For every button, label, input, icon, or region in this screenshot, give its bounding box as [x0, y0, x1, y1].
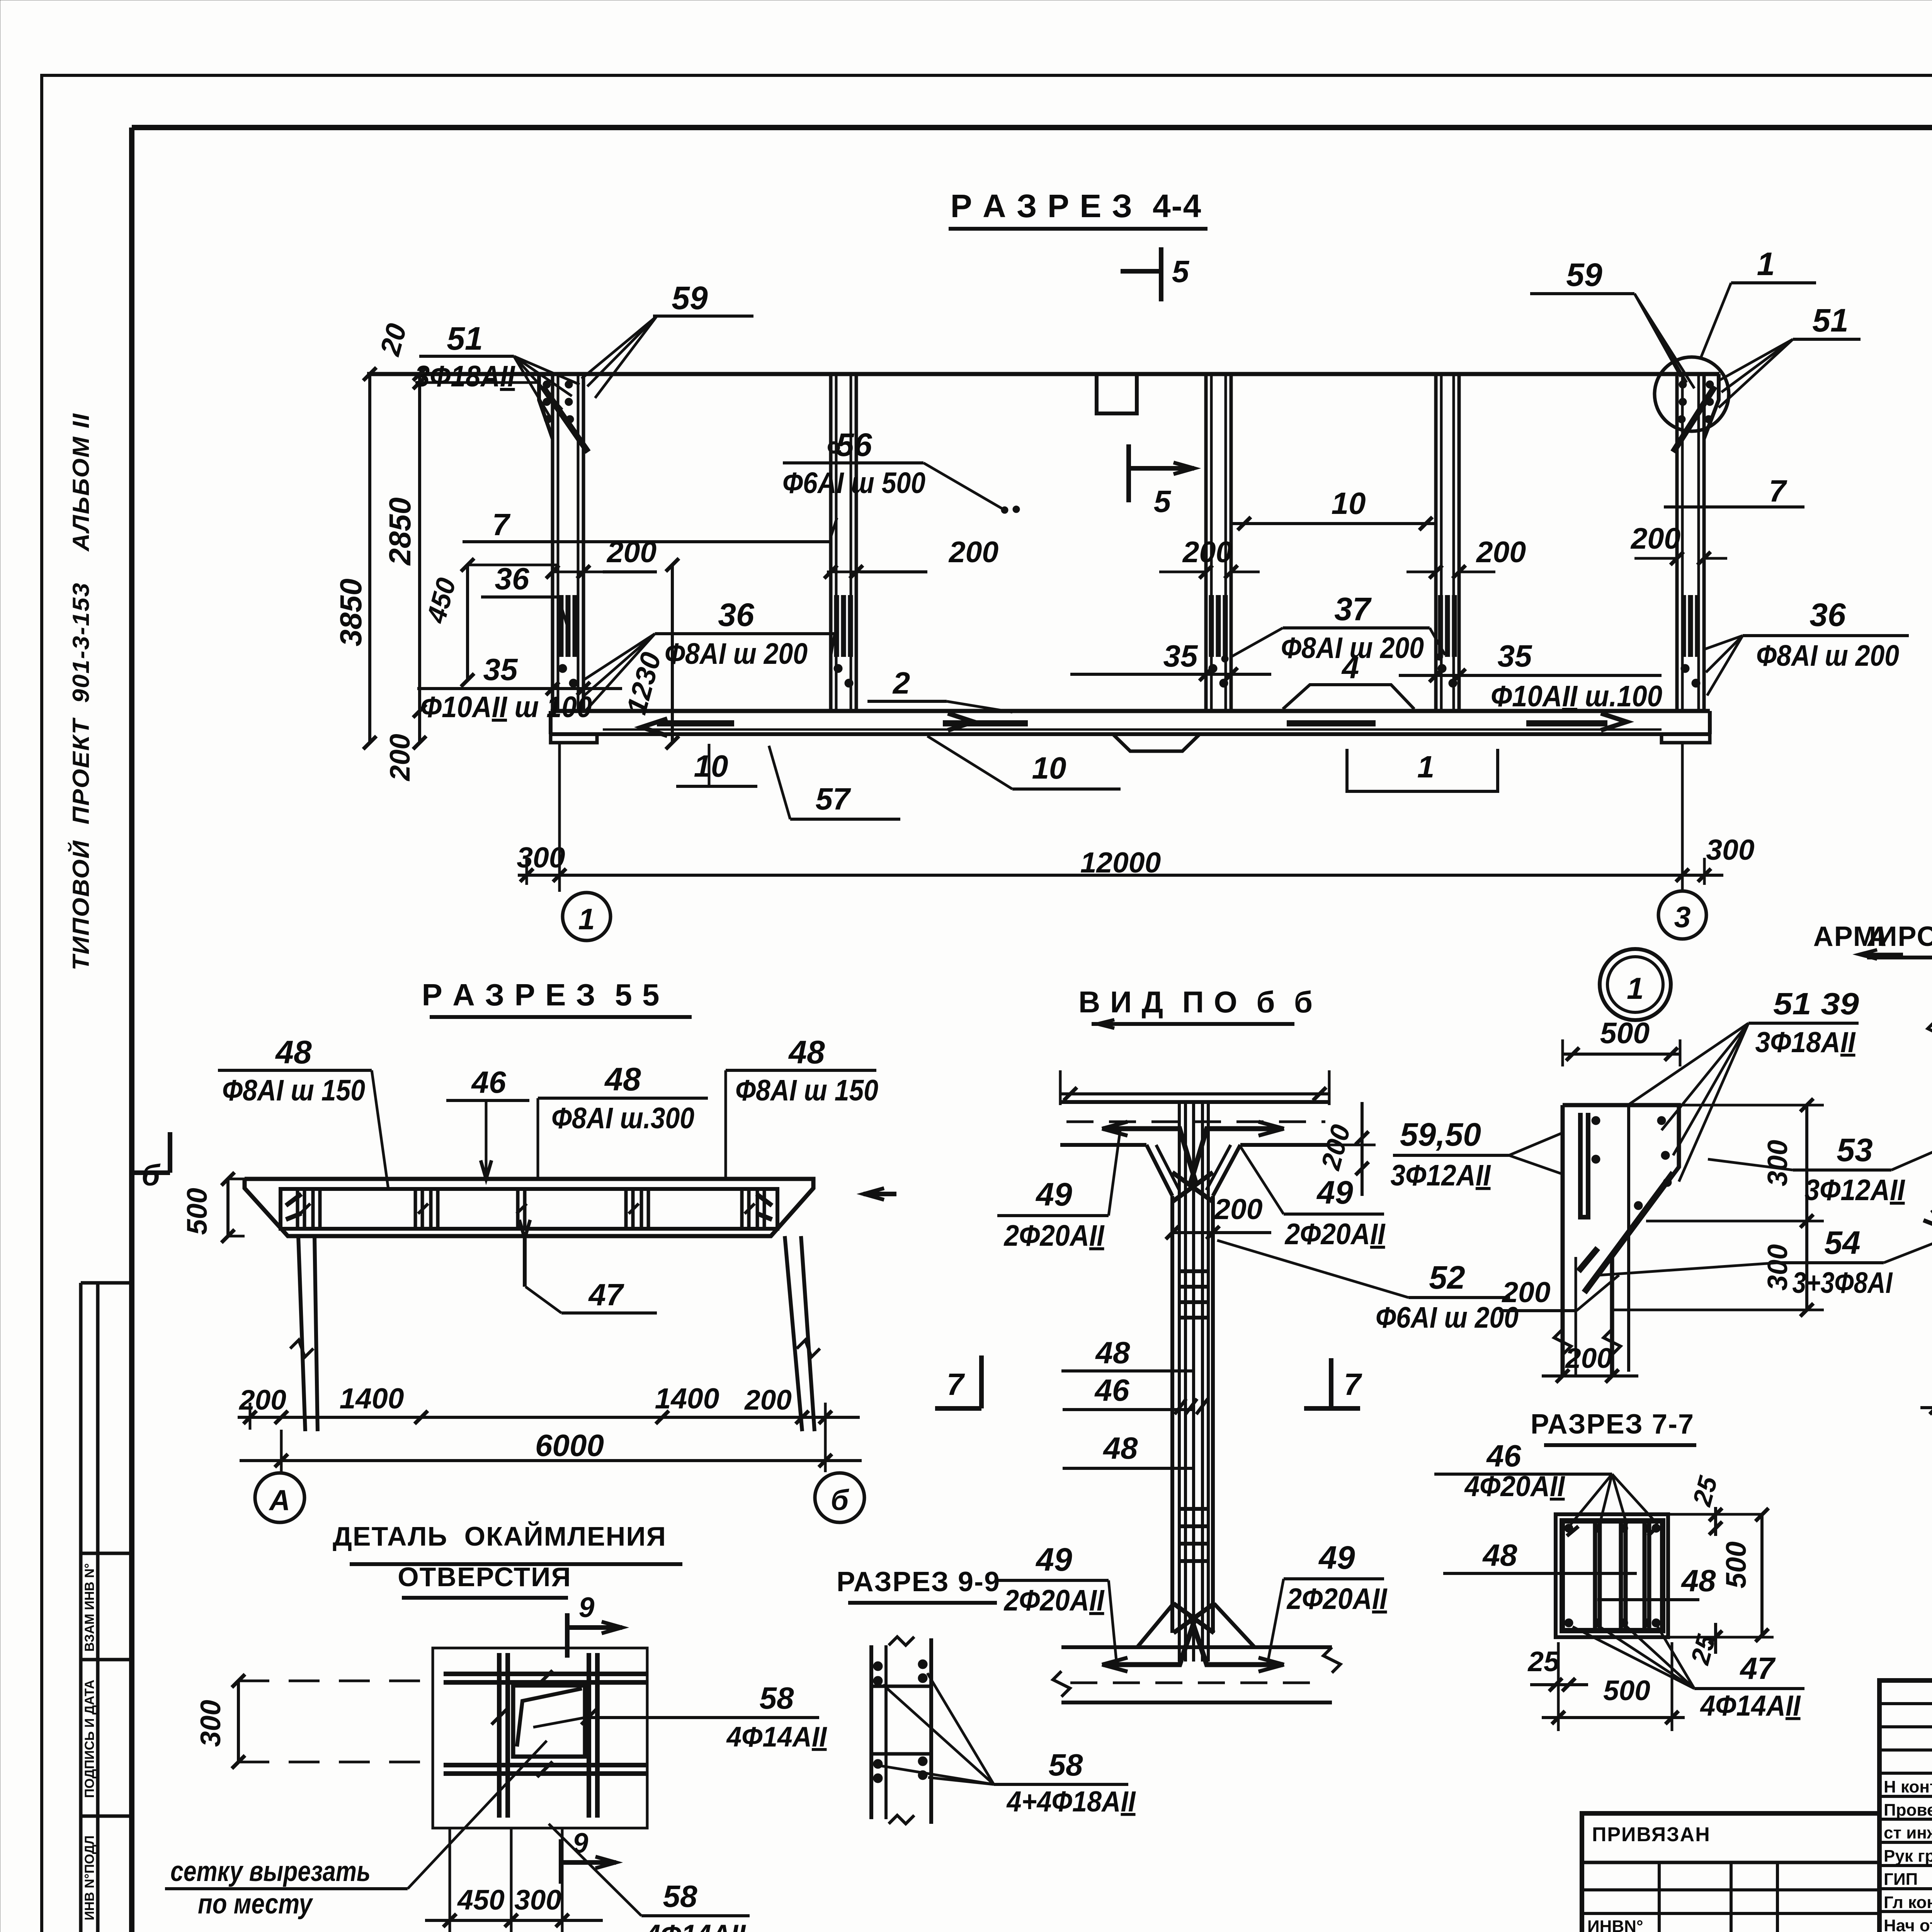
- svg-text:10: 10: [1332, 486, 1366, 520]
- extension lines detail bottom dims: [449, 1828, 451, 1932]
- svg-text:49: 49: [1035, 1541, 1072, 1578]
- svg-text:500: 500: [1721, 1541, 1752, 1588]
- svg-text:300: 300: [514, 1884, 561, 1916]
- mesh cut cross ticks: [492, 1709, 507, 1725]
- svg-text:6000: 6000: [535, 1428, 604, 1463]
- leader fan from label 51 to corbel W1: [514, 356, 553, 421]
- 9-9 horizontal bars: [871, 1685, 931, 1688]
- svg-text:7: 7: [492, 507, 511, 542]
- leader 49 top-left to bent bar: [1109, 1130, 1120, 1216]
- corbel W1 bent bar (thick diagonal): [543, 386, 588, 452]
- leader from label 56 to wall W2: [923, 463, 1005, 510]
- 7-7 corner and bar dots: [1565, 1524, 1573, 1532]
- svg-text:2Ф20АII: 2Ф20АII: [1284, 1218, 1386, 1251]
- detail circle (узел 1) around top of wall W5: [1655, 357, 1729, 431]
- svg-text:3850: 3850: [333, 578, 368, 646]
- axis circle б (5-5): [815, 1473, 864, 1522]
- svg-text:59: 59: [1566, 257, 1602, 293]
- underline отверстия: [402, 1596, 568, 1600]
- привязан box: [1582, 1813, 1879, 1932]
- svg-text:4Ф14АII: 4Ф14АII: [645, 1919, 747, 1932]
- leader 53 to left console: [1708, 1159, 1793, 1170]
- svg-text:сетку вырезать: сетку вырезать: [170, 1856, 371, 1887]
- label 58 / 4Ф14АII (detail right): [585, 1716, 819, 1719]
- svg-text:200: 200: [1501, 1276, 1550, 1308]
- svg-text:Р А З Р Е З 4-4: Р А З Р Е З 4-4: [951, 188, 1202, 224]
- axis circle 3: [1658, 891, 1706, 939]
- bottom slab of section 4-4 outline: [551, 709, 1710, 713]
- svg-text:ИНВ N°ПОДЛ: ИНВ N°ПОДЛ: [82, 1835, 97, 1920]
- 7-7 vertical bar pairs: [1593, 1521, 1597, 1631]
- svg-text:Ф10АII ш 100: Ф10АII ш 100: [420, 690, 592, 724]
- hole edging square: [513, 1685, 585, 1757]
- svg-text:Ф8АI ш 200: Ф8АI ш 200: [1756, 639, 1899, 672]
- svg-text:500: 500: [1603, 1675, 1650, 1706]
- 9-9 rebar dots bottom group: [873, 1759, 883, 1769]
- dimension line 3850 (vertical, left): [368, 374, 371, 743]
- svg-text:47: 47: [588, 1277, 624, 1312]
- section mark 9 (top): [565, 1613, 570, 1658]
- left console rebar dots: [1592, 1116, 1600, 1125]
- svg-text:51: 51: [447, 320, 483, 357]
- title block personnel table frame: [1879, 1680, 1932, 1932]
- leader fan 51 right to corbel W5: [1719, 339, 1793, 381]
- б-б top flange dimension line: [1060, 1092, 1329, 1095]
- leader from note to mesh: [408, 1741, 547, 1889]
- svg-text:ст инж: ст инж: [1884, 1823, 1932, 1842]
- dimension 200 300 (right console bottom): [1920, 1406, 1932, 1409]
- svg-text:200: 200: [1630, 522, 1681, 555]
- beam of section 5-5 outline: [245, 1179, 813, 1236]
- svg-text:ВЗАМ ИНВ N°: ВЗАМ ИНВ N°: [82, 1563, 97, 1652]
- svg-text:Рук гр: Рук гр: [1884, 1847, 1932, 1866]
- svg-text:56: 56: [836, 427, 872, 463]
- svg-text:35: 35: [1498, 639, 1532, 673]
- svg-text:б: б: [831, 1484, 850, 1516]
- svg-text:48: 48: [275, 1034, 312, 1070]
- rebar lap dashes in wall: [1681, 595, 1686, 657]
- left console thick diagonal bar 54: [1584, 1173, 1673, 1293]
- svg-text:200: 200: [1213, 1193, 1262, 1225]
- leader 49 bottom-left to flange bar: [1109, 1580, 1117, 1664]
- svg-text:Ф8АI ш 150: Ф8АI ш 150: [222, 1074, 365, 1107]
- svg-text:3: 3: [1674, 901, 1691, 934]
- svg-text:36: 36: [1810, 597, 1846, 633]
- svg-text:3Ф12АII: 3Ф12АII: [1805, 1173, 1905, 1207]
- leader from 36 to wall W1: [558, 597, 567, 626]
- svg-text:по месту: по месту: [198, 1888, 313, 1920]
- svg-text:4: 4: [1341, 650, 1359, 685]
- leader 54 to right console diagonal: [1884, 1207, 1932, 1263]
- svg-text:200: 200: [384, 734, 416, 782]
- svg-text:ДЕТАЛЬ ОКАЙМЛЕНИЯ: ДЕТАЛЬ ОКАЙМЛЕНИЯ: [333, 1521, 667, 1551]
- svg-text:51 39: 51 39: [1773, 986, 1859, 1021]
- left console vertical rebar line: [1627, 1105, 1630, 1372]
- svg-text:3Ф18АII: 3Ф18АII: [415, 360, 515, 393]
- узел circle marker 1 (double circle): [1600, 949, 1671, 1020]
- svg-text:ОТВЕРСТИЯ: ОТВЕРСТИЯ: [398, 1562, 571, 1592]
- svg-text:Ф6АI ш 200: Ф6АI ш 200: [1376, 1301, 1519, 1334]
- svg-text:3Ф12АII: 3Ф12АII: [1391, 1159, 1491, 1192]
- svg-text:59,50: 59,50: [1400, 1116, 1481, 1153]
- dimension 200 right of top flange: [1361, 1102, 1364, 1196]
- 9-9 column verticals: [869, 1645, 873, 1819]
- б-б bottom flange dashed line: [1070, 1682, 1325, 1684]
- axis circle 1: [563, 893, 611, 940]
- dimension 450 300 (detail bottom): [425, 1919, 603, 1922]
- right console break marks: [1928, 1020, 1932, 1046]
- corbel W5 rebar dots: [1679, 381, 1687, 388]
- 7-7 outer square: [1556, 1514, 1668, 1637]
- left console second diagonal thick (broken): [1578, 1248, 1598, 1271]
- detail mesh outer extension box: [433, 1648, 647, 1828]
- left console break marks bottom: [1554, 1329, 1571, 1355]
- leader fan 51-39 to left console: [1627, 1023, 1748, 1106]
- svg-text:Проверил: Проверил: [1884, 1801, 1932, 1820]
- section 4-4 top edge line: [367, 372, 1719, 376]
- б-б stem outer faces: [1170, 1196, 1174, 1633]
- svg-text:б: б: [141, 1159, 161, 1192]
- svg-text:В И Д П О б б: В И Д П О б б: [1078, 985, 1313, 1019]
- svg-text:300: 300: [517, 841, 565, 874]
- extension line axis 1 down to circle: [558, 744, 561, 892]
- svg-text:1400: 1400: [340, 1382, 404, 1415]
- 7-7 inner reinforcement square thick: [1562, 1521, 1663, 1631]
- underline of title 4-4: [949, 227, 1207, 231]
- wall W3 (interior) outer and inner face lines: [1204, 374, 1208, 711]
- leader from 58 to hole corner bar: [533, 1718, 585, 1727]
- svg-text:300: 300: [1706, 833, 1754, 866]
- svg-text:58: 58: [760, 1681, 794, 1715]
- svg-text:46: 46: [1094, 1373, 1129, 1407]
- svg-text:Ф8АI ш 200: Ф8АI ш 200: [665, 637, 808, 670]
- dimension 200 at wall W4: [1406, 571, 1436, 573]
- svg-text:Ф8АI ш 150: Ф8АI ш 150: [735, 1074, 878, 1107]
- привязан table verticals: [1658, 1862, 1661, 1932]
- underline title 5-5: [430, 1015, 692, 1019]
- leader 49 top-right to bent bar: [1240, 1146, 1284, 1214]
- leader 54 to left console diagonal: [1600, 1263, 1777, 1275]
- svg-text:2: 2: [892, 666, 910, 700]
- svg-text:РАЗРЕЗ 7-7: РАЗРЕЗ 7-7: [1531, 1409, 1694, 1440]
- corbel at top of wall W5: [1704, 374, 1719, 439]
- б-б bottom bent bar left (49) with arrow: [1103, 1662, 1182, 1667]
- leader 52 to stem: [1217, 1240, 1408, 1298]
- б-б flange break marks: [1053, 1671, 1070, 1697]
- svg-text:46: 46: [471, 1065, 506, 1099]
- leader from 37 to wall W4: [1430, 628, 1445, 655]
- slab bottom reinforcement thick dashes and arrows: [657, 720, 734, 726]
- svg-text:4+4Ф18АII: 4+4Ф18АII: [1006, 1785, 1136, 1818]
- svg-text:1: 1: [1627, 971, 1644, 1005]
- axis circle А (5-5): [255, 1473, 304, 1522]
- svg-text:49: 49: [1316, 1174, 1353, 1211]
- left console inner wall face line: [1575, 1257, 1577, 1376]
- svg-text:4Ф14АII: 4Ф14АII: [726, 1721, 828, 1753]
- leader 53 to right console: [1891, 1146, 1932, 1170]
- б-б top bent bar left (49) with arrow: [1103, 1126, 1182, 1131]
- svg-text:10: 10: [1032, 751, 1066, 785]
- section mark 7 (б-б right): [1329, 1358, 1333, 1408]
- svg-text:500: 500: [1600, 1017, 1650, 1050]
- б-б top flange outline: [1060, 1100, 1329, 1104]
- svg-text:59: 59: [672, 280, 708, 316]
- svg-text:48: 48: [604, 1061, 641, 1097]
- svg-text:7: 7: [1769, 474, 1787, 508]
- rebar lap dashes in wall: [1209, 595, 1214, 657]
- svg-text:200: 200: [1182, 536, 1233, 569]
- б-б stem stirrup hatch at 46 level: [1175, 1399, 1186, 1414]
- svg-text:37: 37: [1334, 591, 1372, 627]
- leader fan from 59,50 to console detail: [1509, 1132, 1564, 1155]
- svg-text:25: 25: [1527, 1646, 1560, 1677]
- svg-text:48: 48: [788, 1034, 825, 1070]
- svg-text:РАЗРЕЗ 9-9: РАЗРЕЗ 9-9: [837, 1566, 1000, 1597]
- svg-text:46: 46: [1486, 1439, 1521, 1473]
- bent marking bar in hole: [517, 1689, 582, 1747]
- underline and dim of 35 left: [417, 687, 622, 690]
- svg-text:2Ф20АII: 2Ф20АII: [1286, 1582, 1388, 1616]
- svg-text:1400: 1400: [655, 1382, 719, 1415]
- slab left end step: [551, 734, 597, 743]
- б-б top bent bar right (49) with arrow: [1205, 1126, 1283, 1131]
- 9-9 break marks: [889, 1637, 914, 1645]
- dashed extension lines to detail: [238, 1680, 433, 1682]
- svg-text:АРМИРОВАНИЕ КОНСОЛЕЙ: АРМИРОВАНИЕ КОНСОЛЕЙ: [1813, 920, 1932, 952]
- svg-text:10: 10: [694, 749, 728, 783]
- dimension 200 at wall W3: [1159, 571, 1206, 573]
- б-б bottom flange outline: [1061, 1645, 1332, 1649]
- svg-text:51: 51: [1812, 302, 1848, 338]
- svg-text:Нач отд: Нач отд: [1884, 1916, 1932, 1932]
- section mark 9 (bottom): [559, 1839, 563, 1884]
- cage stirrup pairs: [296, 1189, 299, 1229]
- mesh double horizontal bars top: [444, 1672, 646, 1676]
- slab thin rebar line: [603, 728, 1662, 731]
- cage corner hooks: [286, 1194, 301, 1206]
- svg-text:Н контр: Н контр: [1884, 1777, 1932, 1796]
- svg-text:3+3Ф8АI: 3+3Ф8АI: [1793, 1266, 1893, 1299]
- section mark 5 (bottom, inside): [1126, 444, 1131, 502]
- leader fan 47 to bottom bars of 7-7: [1573, 1627, 1694, 1689]
- dimension 300/300 (console left): [1805, 1105, 1808, 1310]
- svg-text:58: 58: [663, 1879, 697, 1913]
- left console detail outline: [1563, 1105, 1679, 1376]
- section mark б (right): [864, 1192, 896, 1196]
- slab right end step: [1662, 734, 1710, 743]
- corbel W5 bent bar (thick diagonal): [1673, 386, 1715, 452]
- slab middle dip (drain): [1113, 734, 1200, 751]
- rebar lap dashes in wall: [559, 595, 564, 657]
- svg-text:Ф10АII ш.100: Ф10АII ш.100: [1491, 680, 1662, 713]
- svg-text:Ф6АI ш 500: Ф6АI ш 500: [782, 466, 925, 500]
- dimension line 12000 with 300 ends: [518, 874, 1723, 877]
- svg-text:3Ф18АII: 3Ф18АII: [1755, 1026, 1856, 1058]
- svg-text:48: 48: [1482, 1538, 1517, 1572]
- svg-text:7: 7: [947, 1367, 965, 1401]
- svg-text:450: 450: [457, 1884, 505, 1916]
- svg-text:2Ф20АII: 2Ф20АII: [1003, 1584, 1105, 1617]
- leader 49 bottom-right to flange bar: [1267, 1579, 1284, 1664]
- svg-text:300: 300: [1762, 1244, 1793, 1291]
- svg-text:А: А: [269, 1484, 290, 1516]
- svg-text:53: 53: [1837, 1132, 1872, 1168]
- leader fan from label 59 to corbel W1: [582, 316, 657, 379]
- svg-text:36: 36: [495, 561, 529, 596]
- dimension 300 (detail left): [237, 1681, 240, 1762]
- underline title консолей: [1867, 956, 1932, 959]
- dimension 200 under console (wall thickness): [1542, 1374, 1638, 1378]
- svg-text:200: 200: [238, 1384, 286, 1416]
- svg-text:ГИП: ГИП: [1884, 1870, 1918, 1889]
- svg-text:12000: 12000: [1080, 846, 1161, 879]
- leader from 37 to wall W3: [1231, 628, 1283, 657]
- svg-text:ПРИВЯЗАН: ПРИВЯЗАН: [1592, 1823, 1711, 1846]
- dimension 500 (5-5 left): [226, 1179, 230, 1236]
- dimension 500 (7-7 bottom): [1542, 1716, 1685, 1719]
- extension line axis 3 down to circle: [1681, 744, 1684, 891]
- svg-text:7: 7: [1344, 1367, 1362, 1401]
- mesh double vertical bars left: [497, 1653, 502, 1818]
- svg-text:1: 1: [1757, 246, 1775, 282]
- svg-text:300: 300: [1762, 1140, 1793, 1186]
- 7-7 corner hook marks: [1567, 1526, 1578, 1536]
- dimension 10 between walls W3 W4 (pos.10): [1231, 522, 1436, 525]
- opening notch below top line of section 4-4: [1097, 374, 1137, 413]
- svg-text:4Ф14АII: 4Ф14АII: [1700, 1689, 1801, 1722]
- wall W5 (axis 3) outer and inner face lines: [1675, 374, 1679, 711]
- leg break marks: [290, 1340, 313, 1357]
- svg-text:35: 35: [1163, 639, 1198, 673]
- corbel W1 rebar dots: [543, 381, 551, 388]
- svg-text:ИНВN°: ИНВN°: [1587, 1917, 1643, 1932]
- extension to axis circles: [280, 1430, 283, 1472]
- section 4-4 top offset line (20): [421, 381, 539, 384]
- underline title деталь: [350, 1562, 682, 1566]
- left leg of 5-5: [298, 1236, 305, 1431]
- rebar lap dashes in wall: [834, 595, 839, 657]
- svg-text:58: 58: [1049, 1748, 1083, 1782]
- dimension 450 (vertical, inside wall W1): [466, 565, 469, 680]
- dimension 200 at wall W1: [603, 570, 657, 573]
- svg-text:200: 200: [1476, 536, 1526, 569]
- svg-text:36: 36: [718, 597, 755, 633]
- б-б stem stirrup tick groups lower: [1179, 1507, 1209, 1511]
- svg-text:5: 5: [1172, 254, 1190, 289]
- svg-text:500: 500: [182, 1188, 213, 1235]
- svg-text:200: 200: [606, 536, 657, 569]
- svg-text:200: 200: [744, 1384, 792, 1416]
- right leg of 5-5: [785, 1236, 802, 1431]
- svg-text:Гл констр: Гл констр: [1884, 1893, 1932, 1912]
- svg-text:2Ф20АII: 2Ф20АII: [1003, 1219, 1105, 1252]
- stirrup tick marks: [300, 1204, 310, 1214]
- svg-text:ПОДПИСЬ И ДАТА: ПОДПИСЬ И ДАТА: [82, 1680, 97, 1798]
- section mark б (left): [168, 1132, 172, 1173]
- underline title 7-7: [1544, 1443, 1696, 1447]
- б-б stem stirrup tick groups upper: [1179, 1269, 1209, 1273]
- leader bottom 58 to mesh: [549, 1824, 641, 1916]
- svg-text:200: 200: [948, 536, 999, 569]
- leader from label 1 to узел circle: [1700, 283, 1731, 359]
- svg-text:Р А З Р Е З 5 5: Р А З Р Е З 5 5: [422, 978, 660, 1012]
- svg-text:47: 47: [1740, 1651, 1776, 1685]
- wall W2 (interior) outer and inner face lines: [829, 374, 833, 711]
- corbel at top of wall W1: [539, 374, 553, 439]
- dimension 1230 (vertical): [671, 565, 674, 743]
- svg-text:Ф8АI ш.300: Ф8АI ш.300: [551, 1102, 694, 1135]
- left margin cells column: [81, 1283, 132, 1932]
- б-б stem rebar verticals: [1178, 1102, 1181, 1662]
- svg-text:300: 300: [195, 1700, 226, 1747]
- mesh double vertical bars right: [587, 1653, 591, 1818]
- extension short right end: [1703, 858, 1706, 885]
- leader fan 59 right to узел circle: [1634, 294, 1681, 377]
- extension lines legs to dim 5-5: [249, 1403, 252, 1430]
- mesh double horizontal bars bottom: [444, 1763, 646, 1767]
- leader from 48 left down to beam: [372, 1070, 388, 1189]
- svg-text:54: 54: [1824, 1225, 1860, 1261]
- personnel table row lines: [1879, 1702, 1932, 1705]
- underline title 9-9: [848, 1601, 997, 1605]
- leader fan 46 to top bars of 7-7: [1571, 1474, 1612, 1524]
- svg-text:1: 1: [578, 903, 595, 936]
- underline title б-б: [1092, 1022, 1294, 1026]
- svg-text:2850: 2850: [383, 497, 417, 566]
- left console U-bar rebar: [1580, 1113, 1588, 1217]
- svg-text:57: 57: [816, 782, 851, 816]
- wall W4 (interior) outer and inner face lines: [1434, 374, 1438, 711]
- wall W1 (axis 1) outer and inner face lines: [551, 374, 554, 711]
- leader from label 56 to wall W2 second: [831, 518, 837, 537]
- svg-text:35: 35: [483, 652, 518, 687]
- dimension line 2850/20/200 (vertical): [418, 374, 421, 743]
- hook mark on wall W2 rebar: [829, 443, 838, 452]
- dimension 500 (console left detail): [1563, 1053, 1680, 1056]
- svg-text:1: 1: [1417, 750, 1435, 784]
- svg-text:200: 200: [1565, 1343, 1612, 1374]
- б-б bottom haunches: [1137, 1604, 1173, 1647]
- б-б bottom bent bar right (49) with arrow: [1205, 1662, 1283, 1667]
- dimension 200 at wall W2: [860, 570, 927, 573]
- svg-text:5: 5: [1154, 484, 1172, 519]
- section mark 7 (б-б left): [979, 1355, 984, 1408]
- extension short left end: [526, 858, 528, 885]
- leader fan from right 36 to wall W5: [1705, 636, 1743, 649]
- extension line from top edge to dims: [367, 373, 553, 376]
- б-б stem X cross top: [1172, 1172, 1213, 1202]
- section mark 5 (top): [1159, 247, 1163, 301]
- svg-text:52: 52: [1429, 1259, 1465, 1296]
- svg-text:ТИПОВОЙ ПРОЕКТ 901-3-153: ТИПОВОЙ ПРОЕКТ 901-3-153 АЛЬБОМ II: [68, 413, 94, 971]
- б-б haunch diagonals: [1146, 1145, 1172, 1196]
- svg-text:49: 49: [1318, 1539, 1355, 1576]
- svg-text:48: 48: [1103, 1431, 1138, 1465]
- svg-text:48: 48: [1095, 1335, 1130, 1370]
- dimension 500 (7-7 right): [1760, 1514, 1764, 1637]
- svg-text:9: 9: [579, 1592, 595, 1623]
- beam reinforcement cage 5-5: [281, 1189, 777, 1229]
- leader fan 58 to 9-9 dots: [927, 1673, 994, 1784]
- dimension line 6000 (5-5): [240, 1459, 862, 1462]
- dimension line 200/1400 (5-5): [238, 1416, 860, 1419]
- leader fan from 36 to walls W1 W2: [831, 634, 835, 657]
- б-б flange dashed mid line: [1066, 1121, 1325, 1123]
- svg-text:4Ф20АII: 4Ф20АII: [1464, 1470, 1566, 1502]
- 9-9 rebar dots top group: [873, 1662, 883, 1671]
- rebar lap dashes in wall: [1438, 595, 1443, 657]
- dimension 200 at wall W5: [1634, 557, 1677, 560]
